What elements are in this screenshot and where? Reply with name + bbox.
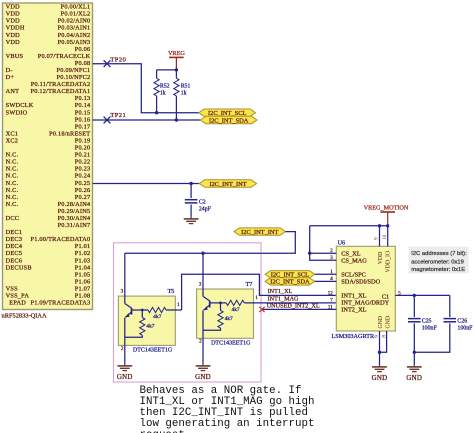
test point TP20: [104, 60, 111, 67]
svg-text:LSM303AGRTR: LSM303AGRTR: [332, 333, 375, 340]
wire GND pin 6: [379, 331, 381, 352]
svg-text:P0.11/TRACEDATA2: P0.11/TRACEDATA2: [31, 81, 91, 88]
svg-text:I2C_INT_SDA: I2C_INT_SDA: [270, 279, 310, 286]
svg-text:N.C.: N.C.: [6, 152, 19, 159]
IC U6 vertical pin texts: [375, 234, 392, 337]
svg-text:DEC5: DEC5: [6, 250, 23, 257]
junction R51-SDA: [175, 118, 178, 121]
IC U6 pin name texts: [328, 249, 402, 314]
svg-text:CS_MAG: CS_MAG: [341, 257, 367, 264]
svg-text:DEC1: DEC1: [6, 229, 23, 236]
svg-text:3: 3: [121, 289, 124, 295]
svg-text:N.C.: N.C.: [6, 201, 19, 208]
wire T7 pulldown top stub: [220, 303, 222, 311]
junction pin 9: [378, 224, 381, 227]
svg-text:4k7: 4k7: [153, 314, 161, 320]
port I2C_INT_SCL at U6: [265, 271, 315, 279]
svg-text:P1.05: P1.05: [75, 271, 91, 278]
svg-text:INT_MAG/DRDY: INT_MAG/DRDY: [341, 300, 389, 307]
power VREG_MOTION symbol: [364, 205, 409, 226]
svg-text:DEC3: DEC3: [6, 236, 23, 243]
transistor T5 body box: [118, 296, 175, 345]
wire CS_XL pin 2: [310, 252, 337, 254]
svg-text:1: 1: [255, 295, 258, 301]
svg-text:P0.13: P0.13: [75, 95, 91, 102]
svg-text:P1.01: P1.01: [75, 243, 91, 250]
svg-text:TP20: TP20: [110, 56, 126, 63]
svg-text:D-: D-: [6, 67, 13, 74]
transistor T7 body box: [197, 289, 254, 338]
svg-text:4k7: 4k7: [225, 316, 233, 322]
svg-text:I2C_INT_INT: I2C_INT_INT: [209, 181, 246, 188]
note I2C addresses box: [409, 247, 469, 274]
svg-text:T5: T5: [168, 288, 175, 295]
wire T7 emitter pin 2 to gnd: [202, 310, 204, 363]
svg-text:P0.07/TRACECLK: P0.07/TRACECLK: [38, 53, 91, 60]
svg-text:P1.09/TRACEDATA3: P1.09/TRACEDATA3: [31, 300, 91, 307]
svg-text:GND: GND: [406, 375, 422, 382]
svg-text:SDA/SDI/SDO: SDA/SDI/SDO: [341, 279, 380, 286]
svg-text:C1: C1: [382, 293, 389, 300]
svg-text:VDD_IO: VDD_IO: [386, 251, 392, 273]
svg-text:magnetometer: 0x1E: magnetometer: 0x1E: [411, 267, 465, 273]
svg-text:C26: C26: [457, 318, 467, 324]
port I2C_INT_SCL top: [199, 109, 256, 117]
svg-text:VDD: VDD: [6, 18, 21, 25]
ground under U6: [372, 364, 388, 382]
junction C25 top: [413, 294, 416, 297]
svg-text:GND: GND: [386, 316, 392, 329]
wire caps gnd stem: [413, 352, 415, 364]
svg-text:VREG: VREG: [168, 50, 185, 57]
wire T5 base to INT1_XL U6 pin 12: [182, 274, 337, 310]
svg-text:P0.26: P0.26: [75, 187, 91, 194]
IC U6 LSM303AGRTR body: [336, 246, 395, 331]
ground under C2: [184, 216, 199, 223]
wire R52 bottom to SCL: [156, 96, 158, 113]
svg-text:P1.04: P1.04: [75, 264, 91, 271]
resistor R51: [174, 78, 179, 96]
svg-text:VDD: VDD: [6, 4, 21, 11]
svg-text:100nF: 100nF: [422, 326, 438, 332]
resistor T7 pulldown 4k7: [218, 310, 223, 328]
port I2C_INT_SDA top: [200, 116, 257, 124]
svg-text:P0.16: P0.16: [75, 116, 91, 123]
resistor R52: [154, 78, 159, 96]
svg-text:INT1_XL: INT1_XL: [341, 293, 366, 300]
svg-text:P0.30/AIN4: P0.30/AIN4: [58, 215, 91, 222]
svg-text:INT1_XL: INT1_XL: [268, 288, 293, 295]
svg-text:P0.15: P0.15: [75, 109, 91, 116]
transistor T5 symbol: [125, 304, 132, 318]
svg-text:CS_XL: CS_XL: [341, 250, 360, 257]
svg-text:D+: D+: [6, 74, 15, 81]
resistor T5 base 4k7: [148, 307, 166, 312]
port I2C_INT_INT 2: [234, 228, 286, 236]
svg-text:N.C.: N.C.: [6, 180, 19, 187]
wire T7 collector pin 3: [202, 253, 204, 296]
svg-text:TP21: TP21: [110, 112, 126, 119]
svg-text:GND: GND: [372, 375, 388, 382]
wire T5 collector pin 3: [124, 253, 126, 303]
svg-text:P0.22: P0.22: [75, 159, 91, 166]
port I2C_INT_INT 1: [199, 180, 256, 188]
wire C26 lower: [414, 323, 450, 352]
wire C2 top: [190, 184, 192, 199]
svg-text:VDD: VDD: [6, 39, 21, 46]
svg-text:P0.27: P0.27: [75, 194, 91, 201]
svg-text:N.C.: N.C.: [6, 166, 19, 173]
svg-text:nRF52833-QIAA: nRF52833-QIAA: [2, 313, 47, 320]
wire VREG to pullups: [157, 69, 177, 71]
svg-text:P0.05/AIN3: P0.05/AIN3: [58, 39, 91, 46]
svg-text:GND: GND: [117, 374, 133, 381]
svg-text:P0.29/AIN5: P0.29/AIN5: [58, 208, 91, 215]
svg-text:1: 1: [177, 302, 180, 308]
svg-text:12: 12: [328, 291, 334, 296]
ground under T7: [195, 363, 211, 381]
svg-text:4k7: 4k7: [146, 323, 154, 329]
svg-text:P0.20: P0.20: [75, 145, 91, 152]
wire C1 pin 5 to caps: [395, 294, 450, 296]
svg-text:P0.12/TRACEDATA1: P0.12/TRACEDATA1: [31, 88, 91, 95]
svg-text:100nF: 100nF: [457, 326, 473, 332]
svg-text:P0.08: P0.08: [75, 60, 91, 67]
svg-text:SWDCLK: SWDCLK: [6, 102, 34, 109]
svg-text:P1.03: P1.03: [75, 257, 91, 264]
junction T7 collector: [201, 252, 204, 255]
svg-text:P0.21: P0.21: [75, 152, 91, 159]
svg-text:INT2_XL: INT2_XL: [341, 307, 366, 314]
svg-text:DCC: DCC: [6, 215, 20, 222]
annotation box NOR gate: [114, 243, 262, 382]
svg-text:P0.17: P0.17: [75, 123, 91, 130]
note NOR gate behaviour text: [140, 385, 315, 433]
junction R52-SCL: [155, 111, 158, 114]
svg-text:GND: GND: [195, 374, 211, 381]
svg-text:I2C_INT_SDA: I2C_INT_SDA: [209, 117, 249, 124]
svg-text:T7: T7: [246, 281, 253, 288]
svg-text:P0.01/XL2: P0.01/XL2: [61, 11, 91, 18]
svg-text:P0.25: P0.25: [75, 180, 91, 187]
wire VDD_IO pin 10: [387, 226, 389, 247]
ground under caps: [406, 364, 422, 382]
svg-text:N.C.: N.C.: [6, 173, 19, 180]
wire VREG_MOTION rail: [310, 225, 388, 227]
junction VREG-R51: [175, 68, 178, 71]
wire T5 pin 1: [166, 309, 182, 311]
svg-text:VSS: VSS: [6, 285, 18, 292]
IC U1 pin name texts: [6, 4, 91, 307]
wire UNUSED_INT2_XL pin 11: [262, 308, 336, 310]
svg-text:DEC4: DEC4: [6, 243, 23, 250]
wire R52 top: [156, 70, 158, 78]
svg-text:UNUSED_INT2_XL: UNUSED_INT2_XL: [267, 303, 320, 310]
junction caps gnd: [413, 351, 416, 354]
svg-text:VDDH: VDDH: [6, 25, 25, 32]
wire VDD pin 9: [379, 226, 381, 247]
svg-text:N.C.: N.C.: [6, 187, 19, 194]
IC U1 nRF52833-QIAA body: [3, 3, 93, 310]
svg-text:C25: C25: [422, 318, 432, 324]
svg-text:P0.04/AIN2: P0.04/AIN2: [58, 32, 91, 39]
junction C2 branch: [189, 182, 192, 185]
svg-text:C2: C2: [199, 199, 206, 205]
svg-text:XC1: XC1: [6, 130, 19, 137]
capacitor C2: [185, 200, 198, 203]
svg-text:3: 3: [199, 282, 202, 288]
svg-text:4k7: 4k7: [232, 307, 240, 313]
svg-text:R51: R51: [181, 83, 191, 89]
svg-text:N.C.: N.C.: [6, 194, 19, 201]
svg-text:P0.02/AIN0: P0.02/AIN0: [58, 18, 91, 25]
svg-text:XC2: XC2: [6, 138, 19, 145]
junction U6 gnd pins: [378, 351, 381, 354]
svg-text:P0.10/NFC2: P0.10/NFC2: [57, 74, 91, 81]
svg-text:SCL/SPC: SCL/SPC: [341, 272, 366, 279]
svg-text:N.C.: N.C.: [6, 159, 19, 166]
svg-text:P1.07: P1.07: [75, 285, 91, 292]
svg-text:I2C addresses (7 bit):: I2C addresses (7 bit):: [411, 251, 467, 257]
junction CS_XL: [308, 252, 311, 255]
svg-text:1k: 1k: [181, 91, 187, 97]
wire SDA pin 4: [315, 280, 337, 282]
svg-text:P0.19: P0.19: [75, 138, 91, 145]
wire T5 pulldown top stub: [141, 310, 143, 318]
no-connect X on INT2_XL: [259, 307, 264, 312]
wire C26 upper: [449, 295, 451, 317]
svg-text:INT1_MAG: INT1_MAG: [268, 296, 299, 303]
svg-text:DTC143EET1G: DTC143EET1G: [133, 348, 173, 354]
wire R51 top: [175, 70, 177, 78]
svg-text:accelerometer: 0x19: accelerometer: 0x19: [411, 259, 464, 265]
wire T5 base: [132, 309, 149, 311]
wire T7 pin 1: [244, 302, 336, 304]
port I2C_INT_SDA at U6: [265, 278, 315, 286]
wire P0.16 / TP21 to I2C_INT_SDA: [93, 119, 201, 121]
capacitor C26: [444, 319, 457, 322]
svg-text:I2C_INT_INT: I2C_INT_INT: [241, 229, 278, 236]
svg-text:VSS_PA: VSS_PA: [6, 293, 30, 300]
wire VREG_MOTION down to CS_MAG pin 3: [310, 226, 337, 260]
wire U6 gnd stem: [379, 352, 381, 364]
svg-text:GND: GND: [378, 316, 384, 329]
svg-text:ANT: ANT: [6, 88, 20, 95]
junction T7 base resistors: [219, 302, 222, 305]
svg-text:P0.09/NFC1: P0.09/NFC1: [57, 67, 91, 74]
svg-text:INT1_XL or INT1_MAG go high: INT1_XL or INT1_MAG go high: [140, 396, 315, 408]
svg-text:P0.31/AIN7: P0.31/AIN7: [58, 222, 91, 229]
svg-text:request: request: [140, 429, 185, 433]
wire R51 bottom to SDA: [175, 96, 177, 120]
svg-text:P0.28/AIN4: P0.28/AIN4: [58, 201, 91, 208]
svg-text:VDD: VDD: [378, 252, 384, 265]
svg-text:24pF: 24pF: [199, 206, 212, 212]
transistor T7 symbol: [203, 296, 210, 310]
wire P0.25 to I2C_INT_INT: [93, 183, 200, 185]
wire C2 bottom: [190, 205, 192, 217]
svg-text:EPAD: EPAD: [9, 300, 26, 307]
wire T7 pulldown to emitter: [203, 328, 221, 330]
wire GND pin 8: [380, 331, 387, 352]
svg-text:VREG_MOTION: VREG_MOTION: [364, 205, 409, 212]
svg-text:P0.06: P0.06: [75, 46, 91, 53]
svg-text:DECUSB: DECUSB: [6, 264, 32, 271]
svg-text:2: 2: [199, 339, 202, 345]
svg-text:U6: U6: [338, 239, 346, 246]
svg-text:P1.08: P1.08: [75, 293, 91, 300]
svg-text:DTC143EET1G: DTC143EET1G: [211, 340, 251, 346]
svg-text:P0.23: P0.23: [75, 166, 91, 173]
wire SCL pin 1: [315, 273, 337, 275]
svg-text:VDD: VDD: [6, 11, 21, 18]
svg-text:1k: 1k: [160, 91, 166, 97]
svg-text:SWDIO: SWDIO: [6, 109, 28, 116]
ground under T5: [117, 363, 133, 381]
svg-text:VBUS: VBUS: [6, 53, 24, 60]
svg-text:P1.02: P1.02: [75, 250, 91, 257]
resistor T5 pulldown 4k7: [140, 318, 145, 336]
power VREG symbol: [168, 50, 185, 70]
svg-text:P0.14: P0.14: [75, 102, 91, 109]
svg-text:P0.00/XL1: P0.00/XL1: [61, 4, 91, 11]
svg-text:P1.00/TRACEDATA0: P1.00/TRACEDATA0: [31, 236, 91, 243]
svg-text:P0.03/AIN1: P0.03/AIN1: [58, 25, 91, 32]
junction pin 10: [386, 224, 389, 227]
svg-text:P1.06: P1.06: [75, 278, 91, 285]
wire T7 base: [210, 302, 227, 304]
wire T5 pulldown to emitter: [125, 335, 143, 337]
wire I2C_INT_INT to collectors: [125, 232, 295, 254]
svg-text:low generating an interrupt: low generating an interrupt: [140, 418, 315, 430]
wire T5 emitter pin 2 to gnd: [124, 318, 126, 364]
test point TP21: [104, 117, 111, 124]
svg-text:P0.18/nRESET: P0.18/nRESET: [49, 130, 90, 137]
svg-text:2: 2: [121, 346, 124, 352]
resistor T7 base 4k7: [226, 300, 244, 305]
svg-text:DEC6: DEC6: [6, 257, 23, 264]
wire C25 upper: [413, 295, 415, 317]
junction T5 base resistors: [141, 309, 144, 312]
wire P0.08 to I2C_INT_SCL: [93, 64, 199, 113]
svg-text:VDD: VDD: [6, 32, 21, 39]
svg-text:R52: R52: [160, 83, 170, 89]
wire C25 lower: [413, 323, 415, 352]
svg-text:P0.24: P0.24: [75, 173, 91, 180]
capacitor C25: [408, 319, 421, 322]
